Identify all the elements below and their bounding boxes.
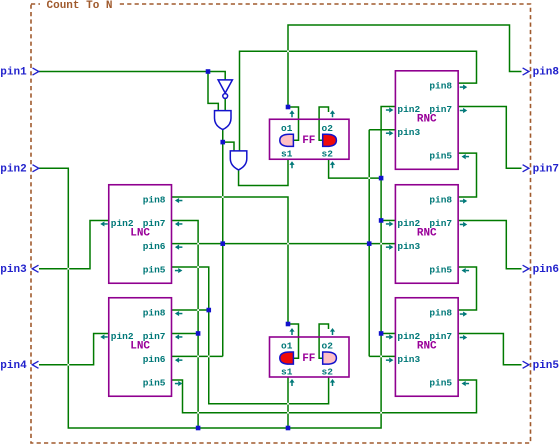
svg-text:pin3: pin3 [397,354,420,365]
module RNC U5 [386,185,469,284]
wire RNC U3 pin8 to AND gate G3 input B [240,51,477,151]
AND gate G2 [215,111,232,130]
svg-text:pin5: pin5 [533,360,560,372]
wire FF1 s2 to pin2 column [329,159,382,178]
svg-text:pin2: pin2 [0,163,26,175]
svg-text:pin5: pin5 [429,151,452,162]
svg-text:o2: o2 [322,123,334,134]
module LNC U4 [100,185,182,284]
svg-text:s1: s1 [281,149,293,160]
junction net3/LNC U4 pin6 [220,241,225,246]
junction FF2 o1 [286,322,291,327]
junction pin2/FF1 s2 [379,176,384,181]
wire RNC U3 pin7 to right pin7 [458,107,522,169]
inverter G1 [218,80,232,99]
wire AND gate G3 output to FF1 s1 [239,159,288,185]
svg-text:pin7: pin7 [533,163,559,175]
wire crossing gaps [67,268,69,270]
svg-text:pin5: pin5 [429,377,452,388]
svg-text:s2: s2 [322,149,334,160]
svg-text:pin5: pin5 [143,264,166,275]
module LNC U6 [100,298,182,397]
wire RNC U7 pin8 to RNC U5 pin5 [458,267,477,310]
junction pin7 col/LNC U6 [196,331,201,336]
flip-flop FF1 [270,110,350,168]
wire LNC U4 pin8 / FF2 o1 [172,197,289,324]
module RNC U3 [386,71,469,170]
wire FF1 o1 to right pin8 [288,25,522,107]
junction pin2/RNC U7 [379,331,384,336]
wire FF2 s1 to bus [287,377,289,428]
svg-text:pin3: pin3 [0,264,27,276]
svg-text:RNC: RNC [417,113,437,125]
svg-text:pin4: pin4 [0,360,27,372]
wire net pin2: input pin2 to bottom bus and RNC pin2 column [39,107,395,429]
svg-text:o2: o2 [322,341,334,352]
svg-text:o1: o1 [281,341,293,352]
svg-text:pin8: pin8 [533,67,560,79]
wire LNC U6 pin5 to RNC U7 pin5 [172,380,477,413]
svg-text:pin6: pin6 [143,241,166,252]
svg-text:Count To N: Count To N [47,0,113,12]
svg-text:RNC: RNC [417,227,437,239]
wire RNC U5 pin7 to right pin6 [458,220,522,268]
svg-text:s1: s1 [281,366,293,377]
junction pin7 col/bus [196,426,201,431]
svg-text:pin8: pin8 [143,194,166,205]
svg-text:pin5: pin5 [429,264,452,275]
svg-text:pin3: pin3 [397,127,420,138]
svg-text:pin8: pin8 [143,307,166,318]
svg-text:pin8: pin8 [429,307,452,318]
svg-text:pin3: pin3 [397,241,420,252]
wire inverter G1 output to AND gate G2 input B [224,98,226,110]
wire net pin1 branch to AND gate G2 input A [208,72,218,111]
junction LNC U6 pin8 [206,308,211,313]
svg-text:pin1: pin1 [0,67,27,79]
wire LNC U4 pin2 to output pin3 [39,220,109,268]
svg-text:pin5: pin5 [143,377,166,388]
wire net3: AND G2 output / pin3 column [222,129,224,142]
junction pin2/RNC U5 [379,218,384,223]
wire RNC U5 pin8 to RNC U3 pin5 [458,153,477,197]
junction G2 out [220,140,225,145]
wire RNC U7 pin7 to right pin5 [458,333,522,364]
svg-text:pin8: pin8 [429,81,452,92]
junction pin1/inverter [206,69,211,74]
svg-text:FF: FF [302,135,315,147]
svg-text:pin6: pin6 [143,354,166,365]
wire FF2 o2 stub [319,324,328,358]
svg-text:o1: o1 [281,123,293,134]
svg-text:pin6: pin6 [533,264,559,276]
junction net3/pin3 col [367,241,372,246]
svg-text:LNC: LNC [130,227,150,239]
flip-flop FF2 [270,328,350,386]
svg-text:FF: FF [302,353,315,365]
svg-text:LNC: LNC [130,340,150,352]
svg-text:pin8: pin8 [429,194,452,205]
junction FF1 o1 [286,105,291,110]
AND gate G3 [230,151,247,170]
module RNC U7 [386,298,469,397]
svg-text:s2: s2 [322,366,334,377]
junction FF2 s1/bus [286,426,291,431]
svg-text:RNC: RNC [417,340,437,352]
wire LNC U4 pin5 to LNC U6 pin8 and FF2 s2 [172,267,329,404]
wire FF1 o2 stub [319,107,328,140]
wire LNC pin7 column [172,220,199,428]
wire LNC U6 pin2 to output pin4 [39,333,109,364]
wire net pin1 trunk [39,72,225,80]
